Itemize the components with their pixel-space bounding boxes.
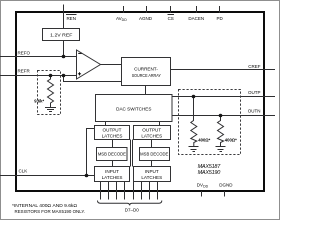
svg-text:CLK: CLK <box>19 169 28 174</box>
svg-text:1.2V REF: 1.2V REF <box>50 32 72 37</box>
svg-text:LATCHES: LATCHES <box>102 175 123 180</box>
svg-text:REFR: REFR <box>18 69 31 74</box>
svg-text:INPUT: INPUT <box>145 169 159 174</box>
svg-text:MSB DECODE: MSB DECODE <box>140 152 168 157</box>
svg-text:MAX5190: MAX5190 <box>198 170 222 176</box>
svg-text:RESISTORS FOR MAX5190 ONLY.: RESISTORS FOR MAX5190 ONLY. <box>15 209 86 215</box>
svg-text:CURRENT-: CURRENT- <box>134 67 158 72</box>
svg-text:OUTN: OUTN <box>248 109 261 114</box>
svg-text:OUTP: OUTP <box>248 90 261 95</box>
svg-text:AGND: AGND <box>139 16 153 21</box>
svg-text:CS: CS <box>168 16 174 21</box>
svg-text:MAX5187: MAX5187 <box>198 164 222 170</box>
svg-text:DACEN: DACEN <box>188 16 204 21</box>
svg-text:INPUT: INPUT <box>105 169 119 174</box>
svg-text:MSB DECODE: MSB DECODE <box>98 152 126 157</box>
svg-text:OUTPUT: OUTPUT <box>103 128 122 133</box>
svg-text:OUTPUT: OUTPUT <box>142 128 161 133</box>
svg-text:DGND: DGND <box>219 183 233 188</box>
svg-text:*INTERNAL 400Ω AND 9.6kΩ: *INTERNAL 400Ω AND 9.6kΩ <box>12 203 77 209</box>
svg-text:LATCHES: LATCHES <box>102 134 123 139</box>
svg-text:CREF: CREF <box>248 64 261 69</box>
svg-text:DAC SWITCHES: DAC SWITCHES <box>116 107 151 112</box>
svg-text:REFO: REFO <box>18 51 31 56</box>
svg-text:D7–D0: D7–D0 <box>125 208 140 213</box>
svg-text:400Ω*: 400Ω* <box>198 138 210 143</box>
svg-text:LATCHES: LATCHES <box>141 134 162 139</box>
svg-text:PD: PD <box>216 16 223 21</box>
svg-text:400Ω*: 400Ω* <box>225 138 237 143</box>
svg-text:REN: REN <box>66 16 76 21</box>
svg-text:9.6k*: 9.6k* <box>34 99 44 104</box>
svg-text:SOURCE ARRAY: SOURCE ARRAY <box>132 73 161 78</box>
svg-text:LATCHES: LATCHES <box>141 175 162 180</box>
